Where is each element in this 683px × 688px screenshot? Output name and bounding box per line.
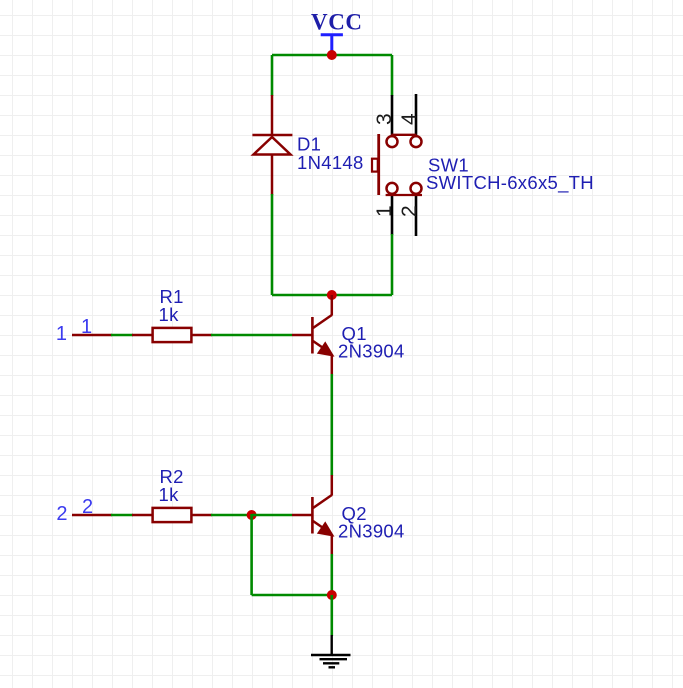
wire: junction to Q2 base xyxy=(252,514,292,517)
svg-text:1k: 1k xyxy=(159,304,180,325)
svg-text:1: 1 xyxy=(56,323,67,345)
wire: junction to ground xyxy=(330,595,333,636)
svg-text:1N4148: 1N4148 xyxy=(297,152,364,173)
connector pin 2 xyxy=(72,514,112,517)
wire: SW1 pin 1 down to bottom rail xyxy=(391,234,394,295)
switch SW1 pin 3 line xyxy=(391,95,394,136)
svg-text:2N3904: 2N3904 xyxy=(338,521,405,542)
wire: D1 cathode down to bottom rail xyxy=(271,194,274,295)
resistor R2 xyxy=(132,508,212,522)
switch SW1 body xyxy=(372,134,422,195)
wire: right vertical to SW1 pin 3 xyxy=(391,55,394,96)
switch SW1 pin 2 line xyxy=(415,194,418,236)
svg-text:1k: 1k xyxy=(159,484,180,505)
transistor Q1 xyxy=(292,295,332,375)
svg-text:4: 4 xyxy=(398,113,421,125)
ground symbol xyxy=(311,635,351,667)
switch SW1 pin 4 line xyxy=(415,94,418,136)
svg-text:3: 3 xyxy=(373,113,396,125)
svg-text:1: 1 xyxy=(373,205,396,217)
diode D1 xyxy=(252,95,292,195)
svg-text:2: 2 xyxy=(82,496,93,518)
wire: top rail VCC xyxy=(272,54,392,57)
wire: R2 to junction xyxy=(211,514,252,517)
net flag VCC symbol xyxy=(321,35,343,53)
wire: pin 1 to R1 xyxy=(111,334,133,337)
svg-text:2: 2 xyxy=(398,205,421,217)
svg-text:1: 1 xyxy=(81,316,92,338)
transistor Q2 xyxy=(292,475,332,555)
svg-text:2: 2 xyxy=(56,503,67,525)
wire: left vertical to D1 anode xyxy=(271,55,274,96)
junction at R2 net xyxy=(247,510,257,520)
junction at ground net xyxy=(327,590,337,600)
wire: junction down left leg xyxy=(250,514,253,595)
svg-text:SWITCH-6x6x5_TH: SWITCH-6x6x5_TH xyxy=(426,172,594,194)
svg-text:VCC: VCC xyxy=(311,10,363,35)
wire: Q2 emitter down xyxy=(330,554,333,595)
resistor R1 xyxy=(132,328,212,342)
wire: bottom rail xyxy=(272,294,392,297)
svg-text:2N3904: 2N3904 xyxy=(338,341,405,362)
connector pin 1 xyxy=(72,334,112,337)
wire: pin 2 to R2 xyxy=(111,514,133,517)
junction at bottom rail / Q1 collector xyxy=(327,290,337,300)
wire: bottom horizontal to emitter net xyxy=(252,594,332,597)
switch SW1 pin 1 line xyxy=(391,194,394,235)
junction at VCC / top rail xyxy=(327,50,337,60)
wire: Q1 emitter to Q2 collector xyxy=(330,374,333,476)
wire: R1 to Q1 base xyxy=(211,334,292,337)
